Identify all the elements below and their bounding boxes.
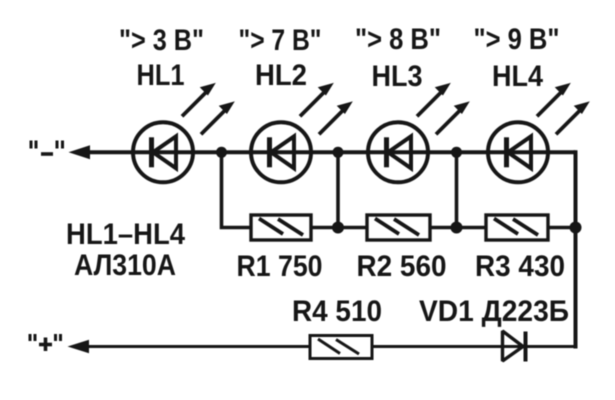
svg-text:R4 510: R4 510 [292,295,382,328]
svg-text:VD1 Д223Б: VD1 Д223Б [419,295,569,328]
svg-text:АЛ310А: АЛ310А [74,249,176,282]
svg-text:HL2: HL2 [255,59,307,92]
svg-text:R3 430: R3 430 [475,250,565,283]
svg-text:R2 560: R2 560 [357,250,447,283]
svg-text:"> 8 В": "> 8 В" [355,23,441,56]
svg-text:"> 7 В": "> 7 В" [239,24,322,57]
svg-text:HL4: HL4 [492,60,543,93]
svg-text:HL1: HL1 [137,59,185,92]
svg-text:"> 9 В": "> 9 В" [474,23,560,56]
svg-text:HL3: HL3 [372,60,423,93]
svg-text:HL1–HL4: HL1–HL4 [66,218,185,251]
svg-text:R1 750: R1 750 [237,250,323,283]
svg-text:"> 3 В": "> 3 В" [119,24,204,57]
